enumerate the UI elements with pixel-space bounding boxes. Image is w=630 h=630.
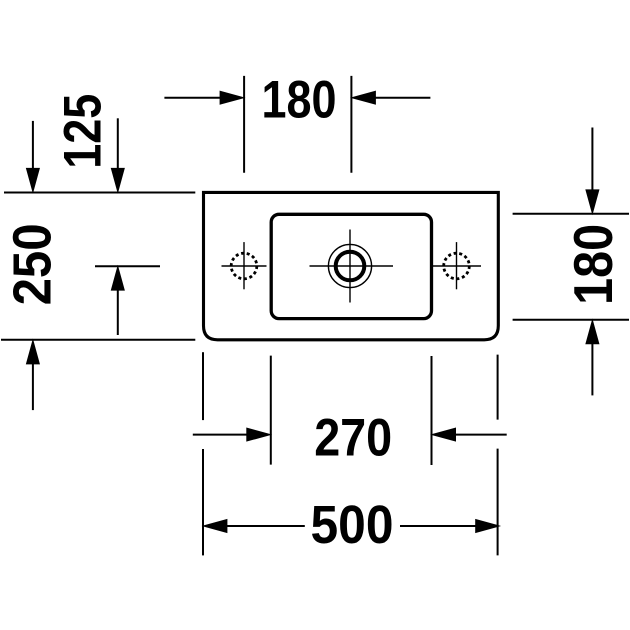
svg-text:180: 180	[262, 70, 337, 129]
dim 500: right extension line (two segments)	[497, 355, 499, 420]
drain crosshair horizontal	[310, 265, 394, 267]
dim 125 left: tap centerline tick	[95, 265, 160, 267]
dim 250 left: upper arrow	[32, 121, 34, 169]
dim 270: left arrow	[193, 434, 248, 436]
dim 180 right: lower arrow	[591, 343, 593, 395]
dim 180 top: left extension line	[243, 76, 245, 173]
dim 500: left extension line (two segments)	[202, 352, 204, 420]
dim 500: right arrow	[400, 525, 476, 527]
dim 270: right arrow	[455, 434, 507, 436]
dim 250 left: bottom extension line	[1, 339, 195, 341]
drain thick circle	[336, 252, 365, 281]
dim 500: left arrow	[204, 520, 227, 533]
basin outer outline	[204, 192, 499, 339]
dim 125 left: upper arrow	[117, 118, 119, 169]
dim 180 top: right arrow	[375, 97, 430, 99]
right tap hole dashed circle	[444, 253, 470, 279]
dim 180 right: upper arrow	[591, 128, 593, 192]
dim 180 top: left arrow	[164, 97, 221, 99]
svg-text:180: 180	[562, 224, 624, 305]
left tap hole crosshair horizontal	[222, 265, 267, 267]
right tap hole crosshair horizontal	[433, 265, 481, 267]
left tap hole crosshair vertical	[243, 242, 245, 289]
dim 180 right: top extension line	[513, 213, 629, 215]
dim 180 right: bottom extension line	[513, 319, 629, 321]
drain crosshair vertical	[349, 230, 351, 303]
svg-text:270: 270	[314, 408, 392, 467]
dim 270: left extension line	[270, 356, 272, 465]
right tap hole crosshair vertical	[456, 242, 458, 289]
drain outer thin circle	[328, 244, 371, 287]
dim 270: right extension line	[431, 356, 433, 465]
svg-text:125: 125	[54, 94, 113, 169]
dim 250 left: top extension line	[4, 192, 195, 194]
svg-text:250: 250	[2, 223, 62, 305]
left tap hole dashed circle	[231, 253, 257, 279]
basin inner bowl outline	[271, 214, 431, 318]
dim 250 left: lower arrow	[32, 363, 34, 410]
dim 125 left: lower arrow	[117, 289, 119, 335]
dim 180 top: right extension line	[350, 76, 352, 173]
svg-text:500: 500	[311, 495, 394, 555]
